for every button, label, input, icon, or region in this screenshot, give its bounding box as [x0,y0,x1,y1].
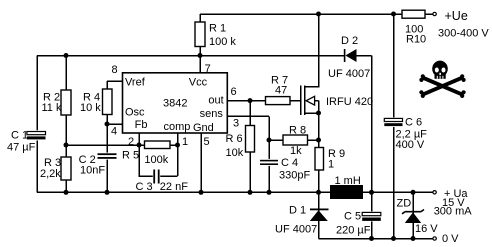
svg-text:0 V: 0 V [442,233,459,245]
svg-text:1 mH: 1 mH [335,175,361,187]
svg-text:1: 1 [182,136,188,148]
svg-text:C 4: C 4 [281,157,298,169]
svg-text:16 V: 16 V [415,223,438,235]
svg-text:100k: 100k [144,154,168,166]
svg-text:300-400 V: 300-400 V [438,27,489,39]
svg-text:ZD: ZD [397,198,412,210]
svg-text:2: 2 [128,136,134,148]
svg-text:UF 4007: UF 4007 [275,223,317,235]
svg-text:C 1: C 1 [11,129,28,141]
svg-text:Osc: Osc [125,106,145,118]
svg-text:220 µF: 220 µF [336,224,371,236]
svg-text:Gnd: Gnd [193,122,214,134]
svg-text:400 V: 400 V [396,139,425,151]
svg-text:Fb: Fb [135,119,148,131]
svg-text:5: 5 [204,136,210,148]
svg-text:100 k: 100 k [209,36,236,48]
svg-text:D 2: D 2 [341,35,358,47]
svg-text:22 nF: 22 nF [160,181,188,193]
svg-text:R10: R10 [406,34,426,46]
svg-text:C 6: C 6 [405,117,422,129]
svg-text:10 k: 10 k [80,102,101,114]
svg-text:R 6: R 6 [226,133,243,145]
svg-text:D 1: D 1 [289,204,306,216]
svg-text:2,2k: 2,2k [40,168,61,180]
svg-text:330pF: 330pF [279,169,310,181]
svg-text:10k: 10k [226,147,244,159]
svg-text:7: 7 [205,63,211,75]
svg-text:47 µF: 47 µF [7,141,36,153]
svg-text:comp: comp [164,121,191,133]
svg-text:1k: 1k [290,145,302,157]
svg-text:3: 3 [233,118,239,130]
svg-text:UF 4007: UF 4007 [328,68,370,80]
svg-text:4: 4 [111,125,117,137]
svg-text:8: 8 [112,64,118,76]
svg-text:10nF: 10nF [80,165,105,177]
svg-text:sens: sens [200,108,224,120]
svg-text:IRFU 420: IRFU 420 [326,96,373,108]
svg-text:out: out [208,95,223,107]
svg-text:R 8: R 8 [289,124,306,136]
svg-text:R 5: R 5 [122,149,139,161]
svg-text:11 k: 11 k [42,102,62,114]
svg-text:1: 1 [328,158,334,170]
svg-text:R 1: R 1 [209,22,226,34]
svg-text:6: 6 [231,86,237,98]
svg-text:C 5: C 5 [344,210,361,222]
svg-text:47: 47 [275,84,287,96]
svg-text:+Ue: +Ue [445,9,468,23]
svg-text:3842: 3842 [163,98,187,110]
svg-text:300 mA: 300 mA [434,206,473,218]
svg-text:Vref: Vref [125,76,146,88]
svg-text:Vcc: Vcc [189,76,208,88]
svg-text:C 3: C 3 [136,181,153,193]
